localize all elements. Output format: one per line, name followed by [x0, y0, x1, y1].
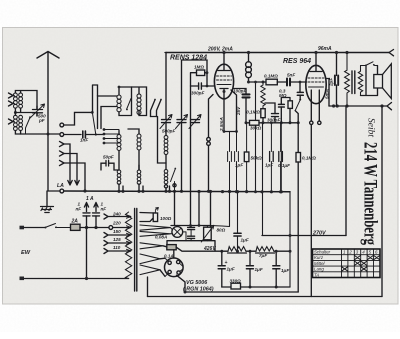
svg-text:240: 240 — [112, 212, 121, 217]
node — [197, 190, 200, 193]
wire tap — [20, 131, 22, 135]
wire coil tap lower — [101, 107, 117, 129]
svg-text:0,1MΩ: 0,1MΩ — [264, 74, 278, 79]
svg-text:RES 964: RES 964 — [283, 58, 311, 65]
coil T2 primary — [14, 115, 18, 119]
tube RES 964 screen — [309, 86, 324, 88]
svg-text:2,5mA: 2,5mA — [219, 117, 224, 132]
wire fuse to plug — [80, 227, 109, 229]
node — [223, 130, 226, 133]
svg-text:Lang: Lang — [314, 267, 324, 272]
svg-text:LA: LA — [57, 183, 64, 189]
antenna terminal A1 — [9, 93, 15, 98]
coil L1 — [117, 95, 121, 99]
switch S mains — [45, 224, 71, 228]
node — [47, 133, 50, 136]
wire screen dropper vertical — [255, 82, 257, 192]
HV secondary chevrons — [140, 254, 160, 275]
filter resistor 2 bar — [256, 252, 275, 254]
wire after R2 — [274, 251, 290, 266]
resistor 30kOhm — [250, 120, 260, 125]
wire 2uF — [336, 53, 338, 107]
resistor 1MOhm grid leak — [197, 70, 205, 76]
svg-text:1μF: 1μF — [281, 268, 289, 273]
resistor zigzag vertical 50k — [261, 82, 265, 109]
svg-text:1μF: 1μF — [227, 267, 235, 272]
tube RENS 1284 anode — [218, 53, 230, 71]
node — [245, 190, 248, 193]
capacitor 300pF AF — [272, 114, 279, 117]
capacitor pair heater left — [188, 227, 195, 229]
svg-text:MΩ: MΩ — [279, 93, 287, 98]
tuning capacitor C2 arrow — [176, 115, 188, 129]
switch table — [313, 249, 381, 278]
coil L4 — [137, 134, 141, 138]
wire band contacts — [104, 130, 120, 144]
svg-text:1μF: 1μF — [265, 163, 273, 168]
node — [118, 86, 121, 89]
node — [270, 190, 273, 193]
wire vertical left of coil block — [93, 85, 98, 112]
tube RES 964 grid — [308, 78, 324, 82]
tube RES 964 anode — [310, 53, 322, 72]
svg-text:50kΩ: 50kΩ — [251, 156, 263, 161]
wire can2 loop — [132, 87, 147, 116]
ground symbol — [41, 207, 54, 213]
tube RENS 1284 envelope — [214, 64, 233, 99]
electrolytic 1uF no1 — [218, 266, 225, 269]
node — [184, 291, 187, 294]
output transformer secondary zigzag — [358, 66, 362, 96]
antenna symbol — [37, 52, 59, 135]
filter resistor 2 zigzag — [256, 247, 274, 252]
wire bus to 270V — [262, 123, 264, 236]
table row lines — [313, 255, 381, 272]
X marks Lang — [342, 267, 368, 272]
coil L6 — [137, 170, 141, 174]
wire cap to coil taps — [85, 134, 104, 136]
wire lamp top — [176, 226, 178, 227]
wire L7 — [165, 123, 167, 170]
capacitor 0,1uF pair — [279, 152, 283, 162]
switch S4 — [127, 99, 132, 110]
svg-text:5mA: 5mA — [325, 89, 330, 99]
capacitor 1uF pair — [270, 152, 274, 162]
output transformer primary zigzag — [345, 53, 350, 107]
wire cluster feeds — [175, 191, 211, 225]
svg-text:7μF: 7μF — [259, 253, 267, 258]
coil L5 — [117, 170, 121, 174]
speaker connection loop — [361, 66, 378, 96]
wire verticals under RENS — [224, 131, 237, 133]
wire from P3 with down arrow — [64, 144, 72, 185]
node — [314, 51, 317, 54]
svg-text:5nF: 5nF — [287, 73, 295, 78]
wire 50k — [246, 123, 248, 192]
wire — [277, 81, 286, 83]
svg-text:0,1A: 0,1A — [164, 254, 174, 259]
node — [260, 190, 263, 193]
wire switch — [295, 95, 300, 152]
coil L8 — [164, 170, 168, 174]
wire bus drop x229.5 — [211, 192, 230, 227]
wire switch bottoms — [151, 117, 167, 164]
tuning capacitor C3 plates — [191, 120, 200, 123]
wire can1 top — [119, 87, 132, 116]
wire grid loop — [191, 60, 208, 191]
wire field resistor down — [297, 162, 299, 292]
variable capacitor 500pF plates — [33, 106, 43, 116]
plug connector pair — [207, 137, 211, 141]
pin circle 1 — [310, 121, 313, 124]
capacitor 1nF — [83, 131, 86, 138]
node — [228, 190, 231, 193]
svg-text:1μF: 1μF — [255, 267, 263, 272]
wire heater caps — [190, 226, 192, 241]
wire C2 — [182, 60, 208, 191]
filter resistor 1 bar — [228, 252, 247, 254]
svg-text:220: 220 — [112, 221, 121, 226]
wire L4 connections — [128, 129, 139, 170]
plug on chassis bus — [60, 189, 64, 193]
wire AVC vertical — [280, 123, 282, 192]
svg-text:EW: EW — [21, 250, 31, 256]
wire bottom — [24, 277, 148, 297]
node — [249, 286, 252, 289]
power transformer primary winding — [125, 212, 131, 279]
switch S8 — [295, 100, 300, 111]
svg-text:214 W Tannenberg: 214 W Tannenberg — [360, 142, 381, 245]
svg-text:1MΩ: 1MΩ — [194, 65, 204, 70]
antenna terminal A2 — [9, 101, 15, 106]
wire lamp right — [183, 232, 186, 241]
node — [289, 250, 292, 253]
svg-text:270V: 270V — [312, 231, 326, 237]
node — [206, 71, 209, 74]
variable resistor 80 Ohm — [204, 227, 212, 240]
wire row y122.8 — [246, 122, 298, 124]
wire junction row — [15, 108, 37, 116]
variable capacitor 500pF arrow — [30, 104, 45, 119]
wire from P2 — [64, 134, 81, 136]
terminal plug P2 — [60, 133, 64, 137]
output transformer core — [352, 71, 355, 94]
svg-text:300pF: 300pF — [191, 91, 204, 96]
mains terminal left — [20, 226, 25, 230]
svg-text:50pF: 50pF — [103, 155, 114, 160]
dial lamp — [172, 227, 183, 238]
wire — [262, 118, 264, 123]
tuning capacitor C3 arrow — [189, 115, 201, 129]
filter resistor 1 zigzag — [228, 247, 246, 252]
wire from P4 with down arrow — [64, 154, 79, 186]
svg-text:1μF: 1μF — [241, 238, 249, 243]
svg-text:100pF: 100pF — [233, 89, 246, 94]
resistor 100 Ohm hum — [153, 213, 157, 222]
output terminal fork lower — [387, 103, 392, 110]
capacitor 1nF left — [83, 213, 90, 216]
wire bus corner down — [289, 192, 291, 287]
capacitor pair block left — [228, 132, 232, 192]
resistor 0,3MOhm — [288, 101, 292, 109]
wire to RES grid — [290, 82, 307, 92]
arrow 1A right — [94, 203, 98, 212]
capacitor AF coupling top — [297, 92, 303, 95]
pin circle 2 — [318, 121, 321, 124]
wire rectifier anodes — [160, 258, 165, 276]
coil T2 secondary — [19, 115, 23, 119]
capacitor horizontal at 0,3M cluster — [279, 104, 285, 107]
plug connector — [164, 185, 167, 188]
svg-text:nF: nF — [101, 207, 107, 212]
svg-text:pF: pF — [38, 118, 45, 123]
wire rectifier top — [173, 250, 175, 258]
tap 125 — [104, 241, 131, 246]
tap 110 — [104, 249, 131, 254]
mains plug on 220 tap — [109, 226, 113, 230]
wire 300pF AF — [265, 103, 275, 123]
wire rectifier bottom — [177, 275, 186, 292]
wire L3 connections — [118, 131, 120, 171]
svg-text:426V: 426V — [203, 246, 216, 252]
coil L3 band coil — [117, 135, 121, 139]
node — [189, 224, 192, 227]
svg-text:80Ω: 80Ω — [217, 228, 226, 233]
node — [91, 111, 94, 114]
fuse 2A — [71, 224, 81, 230]
node — [220, 250, 223, 253]
power transformer core — [135, 209, 137, 292]
svg-text:VG 5006: VG 5006 — [186, 280, 208, 286]
node — [289, 234, 292, 237]
loudspeaker box — [374, 75, 383, 89]
wire anode right — [231, 90, 237, 132]
capacitor 100pF — [243, 94, 250, 97]
capacitor 2uF output — [335, 76, 338, 86]
node bus dots — [117, 190, 120, 193]
wire mains — [24, 227, 45, 229]
speaker switch — [361, 62, 378, 66]
loudspeaker cone — [383, 64, 392, 99]
svg-text:( RGN 1064): ( RGN 1064) — [183, 287, 214, 293]
secondary winding S1 — [140, 213, 155, 222]
rectifier pins — [168, 261, 171, 264]
wire T1 top loop — [15, 91, 37, 110]
node antenna junction — [14, 111, 17, 114]
tube RENS 1284 grids — [217, 76, 232, 80]
output terminal fork upper — [389, 50, 394, 56]
fuse 0,1A — [167, 245, 176, 250]
node — [247, 81, 250, 84]
antenna coupling coil T1 secondary — [19, 93, 23, 97]
resistor 0,1MOhm coupling — [266, 79, 277, 85]
svg-text:200V, 2mA: 200V, 2mA — [207, 47, 233, 53]
svg-text:Seibt: Seibt — [366, 118, 376, 137]
svg-text:Schalter: Schalter — [314, 250, 331, 255]
svg-text:2A: 2A — [71, 219, 79, 225]
wire 270V line — [262, 235, 346, 237]
wire bias cap — [237, 192, 239, 252]
wire plug to bus — [208, 145, 210, 191]
tube RES 964 envelope — [306, 65, 326, 103]
node — [85, 277, 88, 280]
wire pin down — [310, 125, 312, 297]
terminal plug P4 — [60, 151, 65, 156]
node — [247, 51, 250, 54]
svg-text:0,08A: 0,08A — [155, 235, 167, 240]
tuning capacitor C1 plates — [162, 120, 171, 123]
node — [85, 226, 88, 229]
screen coil RFC — [248, 53, 250, 63]
wire outer return — [148, 296, 383, 298]
terminal plug P3 — [60, 141, 65, 146]
wire coils to bus — [119, 165, 143, 191]
wire 330 line — [222, 286, 290, 288]
svg-text:1μF: 1μF — [235, 163, 243, 168]
svg-text:Kurz: Kurz — [314, 255, 324, 260]
svg-text:25V: 25V — [236, 106, 241, 116]
svg-text:TA: TA — [314, 272, 319, 277]
coil L7 — [164, 136, 168, 140]
rectifier pin stubs — [165, 258, 183, 276]
antenna terminal A3 — [9, 119, 15, 124]
wire from P5 — [64, 163, 85, 191]
wire 1uF pair — [270, 123, 272, 192]
wire cluster top — [171, 225, 211, 227]
svg-text:150: 150 — [113, 229, 121, 234]
tuning capacitor C1 arrow — [160, 115, 172, 129]
capacitor 1nF right — [93, 213, 100, 216]
chassis bus wire — [64, 190, 290, 193]
X marks Kurz — [354, 255, 380, 259]
tube RES 964 filament pins — [311, 90, 319, 121]
resistor 330 Ohm — [231, 283, 241, 289]
svg-text:0,1MΩ: 0,1MΩ — [302, 156, 316, 161]
svg-text:30kΩ: 30kΩ — [250, 126, 262, 131]
wire 0,3M cluster — [281, 98, 290, 123]
mains terminal bottom left — [20, 277, 25, 281]
wire 426V middle — [246, 250, 256, 252]
wire output line — [329, 105, 387, 107]
svg-text:+: + — [225, 260, 228, 266]
svg-text:RENS 1284: RENS 1284 — [170, 55, 207, 62]
switch S7 — [171, 169, 176, 192]
coil L2 — [137, 94, 141, 98]
svg-text:96mA: 96mA — [318, 46, 332, 52]
switch S1 — [26, 118, 31, 135]
svg-text:500pF: 500pF — [162, 129, 175, 134]
resistor 0,1MOhm vertical — [261, 109, 265, 118]
resistor 0,1MOhm field — [296, 153, 301, 163]
switch S5 — [151, 100, 156, 117]
wire cluster bottom — [167, 241, 215, 251]
node — [222, 51, 225, 54]
X marks Mittel — [354, 261, 367, 266]
rectifier heater chevron — [140, 243, 163, 249]
wire from P1 — [64, 112, 93, 125]
capacitor 1uF bias — [234, 233, 241, 236]
terminal plug P5 — [60, 160, 65, 165]
svg-text:125: 125 — [113, 237, 121, 242]
wire caps down — [87, 216, 97, 279]
wire right edge down — [381, 106, 383, 297]
node — [245, 121, 248, 124]
wire coil to resistor row — [249, 78, 267, 82]
svg-text:2: 2 — [348, 250, 352, 255]
terminal plug P1 — [60, 123, 64, 127]
svg-text:330Ω: 330Ω — [230, 279, 242, 284]
secondary heater winding chevrons — [140, 225, 171, 236]
table column lines — [342, 249, 374, 278]
wire bottom return — [185, 291, 298, 293]
svg-text:0,1MΩ: 0,1MΩ — [246, 110, 260, 115]
tap 220 wire — [113, 227, 131, 229]
wire plug lead — [209, 95, 214, 138]
switch S2 lever — [93, 114, 96, 135]
wire rail corner into C1 — [165, 53, 167, 120]
node — [332, 104, 335, 107]
svg-text:1nF: 1nF — [80, 138, 88, 143]
wire anode to output — [326, 79, 329, 107]
tube RENS 1284 cathode — [220, 89, 228, 132]
svg-text:Mittel: Mittel — [314, 261, 326, 266]
wire heater to lamp — [171, 228, 173, 234]
resistor 50kOhm vertical — [244, 152, 249, 162]
wire L8 to bus — [166, 184, 170, 191]
wire grid — [191, 85, 216, 87]
node — [335, 51, 338, 54]
node — [83, 189, 86, 192]
wire antenna bottom — [15, 131, 60, 135]
wire 0,1uF — [280, 123, 282, 192]
wire 100pF — [234, 89, 246, 123]
svg-text:100Ω: 100Ω — [160, 216, 172, 221]
svg-text:300pF: 300pF — [267, 118, 280, 123]
capacitor 300pF grid — [199, 83, 202, 89]
node bus dots — [164, 190, 167, 193]
svg-text:1 A: 1 A — [86, 196, 94, 202]
top supply rail — [166, 52, 389, 54]
capacitor 50pF — [106, 161, 109, 167]
svg-text:110: 110 — [113, 245, 121, 250]
rectifier tube VG 5006 — [165, 258, 184, 277]
node contact dots — [103, 128, 106, 131]
node — [249, 250, 252, 253]
capacitor pair heater right — [188, 236, 195, 238]
node — [262, 81, 265, 84]
arrow 1A left — [84, 203, 88, 212]
antenna coupling coil T1 primary — [14, 93, 18, 97]
wire coil tap upper — [98, 96, 118, 129]
svg-text:2μF: 2μF — [329, 78, 334, 87]
wire varR — [206, 226, 208, 241]
wire 426V line — [176, 247, 228, 251]
node — [236, 190, 239, 193]
tap 240 — [104, 214, 131, 219]
capacitor 5nF — [287, 79, 290, 86]
switch S6 — [157, 100, 162, 117]
tap 150 — [104, 233, 131, 238]
tube RENS 1284 screen — [217, 84, 231, 86]
wire 270V riser — [345, 106, 347, 236]
tuning capacitor C2 plates — [177, 120, 186, 123]
capacitor pair block right — [235, 132, 239, 192]
ground wire — [48, 134, 60, 191]
electrolytic 1uF no3 — [273, 266, 280, 269]
svg-text:nF: nF — [76, 207, 82, 212]
electrolytic 1uF no2 — [246, 266, 253, 269]
node — [207, 190, 210, 193]
